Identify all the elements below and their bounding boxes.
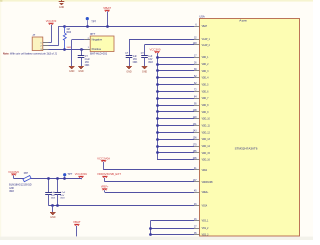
pin 62 VDD_5 bbox=[194, 83, 209, 87]
pin 84 VDD_7 bbox=[194, 97, 209, 101]
pin 39 VDD_3 bbox=[194, 69, 209, 73]
wire VSS bus vertical bbox=[150, 221, 152, 235]
wire VDD_10 tap bbox=[156, 117, 194, 120]
node ground tap bbox=[51, 204, 54, 207]
svg-text:16V: 16V bbox=[60, 195, 64, 197]
ground (filter) bbox=[50, 206, 56, 220]
svg-text:VDD_2: VDD_2 bbox=[202, 63, 209, 66]
svg-text:16V: 16V bbox=[148, 59, 153, 61]
svg-text:VDD_14: VDD_14 bbox=[202, 145, 211, 148]
wire VSSA rail bbox=[49, 205, 195, 207]
wire VDD_2 tap bbox=[156, 63, 194, 66]
pin 148 VCAP_2 bbox=[193, 43, 211, 47]
power flag VBAT (top) bbox=[103, 7, 112, 12]
battery holder BT1 bbox=[90, 32, 114, 55]
ferrite bead FB1 bbox=[23, 173, 31, 182]
wire VDD_1 tap bbox=[156, 56, 194, 59]
svg-text:VSS_2: VSS_2 bbox=[202, 227, 209, 230]
svg-text:VDD_15: VDD_15 bbox=[202, 152, 211, 155]
pin 45 VREF+ bbox=[194, 190, 209, 194]
svg-text:GND: GND bbox=[69, 70, 75, 73]
ground (battery negative) bbox=[69, 67, 75, 74]
pin 1 of J1 bbox=[43, 42, 49, 44]
wire VDD_12 tap bbox=[156, 131, 194, 134]
svg-text:BAT-HLD-001: BAT-HLD-001 bbox=[90, 52, 108, 55]
svg-text:VBAT: VBAT bbox=[103, 7, 112, 10]
wire VDD_4 tap bbox=[156, 76, 194, 79]
svg-text:VCC3V0A: VCC3V0A bbox=[97, 157, 110, 160]
wire VBAT rail (to U5 VBAT pin) bbox=[65, 26, 194, 28]
svg-text:VCAP_1: VCAP_1 bbox=[202, 38, 211, 41]
capacitor C5 bbox=[54, 179, 65, 206]
svg-text:VBAT: VBAT bbox=[202, 25, 208, 28]
ground (C2) bbox=[126, 67, 132, 74]
pin 108 VDD_9 bbox=[193, 110, 209, 114]
wire VCAP_2 bbox=[145, 45, 195, 56]
connector J1 bbox=[32, 33, 43, 51]
pin 137 VDD33USB bbox=[193, 180, 213, 184]
wire VDD_3 tap bbox=[156, 69, 194, 72]
wire VDD_5 tap bbox=[156, 83, 194, 86]
svg-text:VREF+: VREF+ bbox=[202, 191, 209, 194]
pin 46 VSSA bbox=[194, 204, 207, 208]
capacitor C2 (VCAP_1) bbox=[125, 53, 138, 67]
pin 41 VDDA bbox=[194, 168, 207, 172]
pin 32 VCAP_1 bbox=[194, 37, 210, 41]
wire VDD_15 tap bbox=[156, 151, 194, 154]
node resistor bottom on positive rail bbox=[63, 48, 66, 51]
wire battery negative to ground bbox=[72, 40, 85, 67]
wire VDD_8 tap bbox=[156, 104, 194, 107]
pin 26 VDD_2 bbox=[194, 62, 209, 66]
svg-text:VDD3V3USB_EXT: VDD3V3USB_EXT bbox=[97, 173, 122, 176]
wire VDD_16 (bus bottom corner) bbox=[157, 159, 194, 161]
power flag VCC3V0 (bottom left) bbox=[8, 171, 20, 176]
wire VDD bus vertical bbox=[157, 53, 159, 160]
svg-text:GND: GND bbox=[78, 70, 84, 73]
svg-text:VDD_1: VDD_1 bbox=[202, 56, 209, 59]
ferrite bead value text bbox=[9, 184, 32, 193]
wire VCAP_1 bbox=[129, 39, 194, 55]
svg-text:0603: 0603 bbox=[85, 65, 90, 67]
svg-text:120R: 120R bbox=[9, 188, 14, 190]
svg-text:VCC3V0: VCC3V0 bbox=[46, 20, 57, 23]
pin 206 VDD_16 bbox=[193, 158, 211, 162]
svg-text:VSSA: VSSA bbox=[202, 205, 208, 208]
svg-text:0603: 0603 bbox=[51, 198, 56, 200]
svg-text:0.1uF: 0.1uF bbox=[85, 59, 91, 61]
svg-text:Negative: Negative bbox=[92, 39, 103, 42]
svg-text:GND: GND bbox=[142, 70, 148, 73]
wire VSS_2 bbox=[149, 227, 194, 230]
svg-text:VDD_5: VDD_5 bbox=[202, 84, 209, 87]
svg-text:0603: 0603 bbox=[148, 62, 153, 64]
pin 17 VDD_1 bbox=[194, 56, 209, 60]
svg-text:VDD_9: VDD_9 bbox=[202, 111, 209, 114]
node VBAT rail junction at resistor top bbox=[63, 25, 66, 28]
ground (top, floating) bbox=[59, 0, 65, 9]
top-left sheet corner mark bbox=[0, 0, 2, 2]
svg-text:VCC3V0U: VCC3V0U bbox=[75, 173, 88, 176]
svg-text:VSS_3: VSS_3 bbox=[202, 234, 209, 237]
svg-text:16V: 16V bbox=[51, 195, 55, 197]
svg-text:VREF+: VREF+ bbox=[101, 186, 109, 189]
svg-text:16V: 16V bbox=[85, 62, 90, 64]
pin 6 VBAT bbox=[194, 25, 207, 29]
capacitor C3 (VCAP_2) bbox=[141, 53, 154, 67]
svg-text:VCC3V0: VCC3V0 bbox=[150, 49, 162, 52]
svg-text:0603: 0603 bbox=[133, 62, 138, 64]
wire VDD_13 tap bbox=[156, 138, 194, 141]
svg-text:0603: 0603 bbox=[60, 198, 65, 200]
svg-text:VCC3V0: VCC3V0 bbox=[8, 171, 20, 174]
node C4 top bbox=[47, 177, 50, 180]
wire VDD3V3USB_EXT to VDD33USB bbox=[105, 178, 195, 182]
node TP on VBAT rail bbox=[86, 25, 89, 28]
svg-text:Positive: Positive bbox=[92, 48, 102, 51]
svg-text:VSS_1: VSS_1 bbox=[202, 220, 209, 223]
pin 120 VDD_10 bbox=[193, 117, 211, 121]
svg-text:VDD_13: VDD_13 bbox=[202, 138, 211, 141]
svg-text:VDD_3: VDD_3 bbox=[202, 70, 209, 73]
ground (C1) bbox=[78, 67, 84, 74]
pin 170 VDD_14 bbox=[193, 144, 211, 148]
svg-text:VDD_4: VDD_4 bbox=[202, 77, 209, 80]
svg-text:VDD_11: VDD_11 bbox=[202, 125, 211, 128]
svg-text:VDD_12: VDD_12 bbox=[202, 131, 211, 134]
pin 143 VDD_12 bbox=[193, 131, 211, 135]
pin 72 VDD_6 bbox=[194, 90, 209, 94]
ground (C3) bbox=[142, 67, 148, 74]
node TP2 on rail bbox=[63, 177, 66, 180]
pin 95 VDD_8 bbox=[194, 103, 209, 107]
power flag VBAT (bottom) bbox=[73, 221, 81, 226]
test point TP1 bbox=[86, 17, 97, 26]
bottom sheet border strip bbox=[0, 237, 313, 240]
svg-text:VBAT: VBAT bbox=[73, 221, 81, 224]
node C5 top bbox=[56, 177, 59, 180]
power flag VCC3V0 (VDD bus) bbox=[150, 49, 162, 54]
wire VSS_3 bbox=[149, 233, 194, 236]
top sheet border strip bbox=[0, 0, 313, 2]
power flag VCC3V0 (top left) bbox=[46, 20, 57, 25]
pin 2 of BT1 (negative) bbox=[85, 38, 91, 40]
svg-text:0603: 0603 bbox=[66, 31, 71, 34]
pin 2 of J1 bbox=[43, 45, 49, 47]
svg-text:VDD_8: VDD_8 bbox=[202, 104, 209, 107]
svg-text:TP?: TP? bbox=[91, 20, 96, 23]
wire J1 pin2 to VBAT rail bbox=[49, 26, 65, 46]
svg-text:GND: GND bbox=[59, 6, 65, 9]
wire VCC3V0 to J1 pin 1 bbox=[49, 25, 52, 43]
svg-text:1uF: 1uF bbox=[148, 56, 153, 58]
power flag VREF+ bbox=[101, 186, 109, 191]
capacitor C1 0.1uF bbox=[78, 49, 91, 67]
power flag VCC3V0A bbox=[97, 157, 110, 162]
svg-text:VDD_6: VDD_6 bbox=[202, 90, 209, 93]
pin 3 of J1 bbox=[43, 49, 49, 51]
resistor R1 1M bbox=[63, 26, 71, 49]
wire VREF+ to U5 bbox=[105, 190, 195, 192]
power flag VCC3V0U bbox=[75, 173, 88, 178]
svg-text:U5A: U5A bbox=[199, 15, 204, 19]
svg-text:Note: With coin cell battery c: Note: With coin cell battery connect pin… bbox=[3, 53, 58, 56]
svg-text:VDD_10: VDD_10 bbox=[202, 118, 211, 121]
wire VDD_9 tap bbox=[156, 110, 194, 113]
pin 52 VDD_4 bbox=[194, 76, 209, 80]
svg-text:A-pw: A-pw bbox=[239, 20, 247, 23]
svg-text:16V: 16V bbox=[133, 59, 138, 61]
svg-text:VDDA: VDDA bbox=[202, 169, 208, 172]
test point TP2 bbox=[63, 173, 73, 179]
pin 1 of BT1 (positive) bbox=[85, 47, 91, 49]
pin 156 VDD_13 bbox=[193, 138, 211, 142]
svg-text:BT?: BT? bbox=[90, 32, 95, 36]
capacitor C4 bbox=[45, 179, 56, 206]
svg-text:1uF: 1uF bbox=[133, 56, 138, 58]
pin 16 VSS_1 bbox=[194, 219, 209, 223]
svg-text:VDD_16: VDD_16 bbox=[202, 159, 211, 162]
left sheet border strip bbox=[0, 2, 1, 237]
svg-text:TP?: TP? bbox=[67, 173, 72, 176]
svg-text:BLM18AG121SN1D: BLM18AG121SN1D bbox=[9, 184, 32, 187]
pin 27 VSS_2 bbox=[194, 226, 209, 230]
wire VBAT flag to rail bbox=[107, 11, 109, 26]
pin 35 VSS_3 bbox=[194, 233, 209, 237]
node C5 bottom bbox=[56, 204, 59, 207]
wire VDD_7 tap bbox=[156, 97, 194, 100]
node VBAT flag junction bbox=[106, 25, 109, 28]
svg-text:VDD_7: VDD_7 bbox=[202, 97, 209, 100]
op-amp U5 (MCU power part) body bbox=[199, 15, 299, 237]
svg-text:GND: GND bbox=[126, 70, 132, 73]
node capacitor tap on positive rail bbox=[80, 48, 83, 51]
wire VDD_14 tap bbox=[156, 145, 194, 148]
svg-text:FB?: FB? bbox=[24, 173, 29, 175]
pin 185 VDD_15 bbox=[193, 151, 211, 155]
svg-text:4.7uF: 4.7uF bbox=[60, 192, 65, 194]
wire VCC3V0A to VDDA bbox=[104, 162, 195, 170]
wire VCC3V0 rail (ferrite) bbox=[14, 175, 82, 178]
svg-text:0603: 0603 bbox=[9, 191, 14, 193]
power flag VDD3V3USB_EXT bbox=[97, 173, 122, 178]
wire VSS_1 bbox=[150, 220, 194, 222]
svg-text:VBATB: VBATB bbox=[67, 46, 72, 49]
wire VDD_11 tap bbox=[156, 124, 194, 127]
svg-text:VCAP_2: VCAP_2 bbox=[202, 44, 211, 47]
wire VBAT bottom stub bbox=[76, 226, 78, 237]
wire VDD_6 tap bbox=[156, 90, 194, 93]
wire VCC3V0U to ferrite rail bbox=[81, 178, 83, 180]
svg-text:VDD33USB: VDD33USB bbox=[202, 181, 213, 184]
pin 131 VDD_11 bbox=[193, 124, 211, 128]
svg-text:STM32H7A3IIT6: STM32H7A3IIT6 bbox=[235, 146, 258, 150]
wire J1 pin3 to battery positive bbox=[49, 49, 85, 51]
svg-text:GND: GND bbox=[50, 216, 56, 219]
